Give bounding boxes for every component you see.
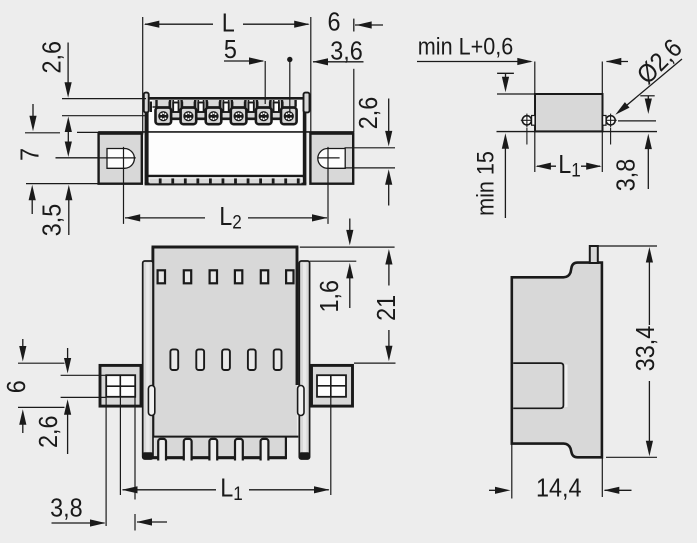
dimension 21 [373, 249, 401, 361]
svg-text:L: L [222, 9, 235, 37]
wire clamp tab 1 [170, 102, 182, 119]
svg-text:2,6: 2,6 [35, 416, 63, 449]
right seam capsule [298, 386, 304, 416]
right end gap [286, 437, 298, 460]
right slot centerline vertical [327, 147, 329, 224]
terminal screw 3 [206, 108, 222, 125]
dimension 33,4 bottom extension [606, 456, 657, 458]
screw boss left [527, 116, 535, 145]
dimension 5 label [224, 36, 237, 64]
small gap dimension [497, 73, 514, 92]
svg-text:min L+0,6: min L+0,6 [418, 32, 513, 59]
left flange slot [107, 149, 134, 169]
housing inner bottom line [148, 176, 303, 179]
dimension 3,6 [313, 37, 364, 65]
wing top extension left [18, 362, 65, 364]
shroud comb band [153, 100, 296, 107]
tooth slot 1 [158, 438, 166, 461]
dimension 2,6 right arrows [385, 99, 392, 206]
wing top arrow left [19, 339, 26, 362]
window right extension down [134, 397, 136, 531]
window bottom extension [61, 396, 107, 398]
body outline (bottom view) [152, 247, 299, 437]
dimension 7 double arrow [65, 117, 72, 158]
dimension 3,5 arrows [29, 185, 73, 235]
shroud inner line [153, 106, 296, 108]
left mounting flange [99, 134, 142, 184]
solder pin side [590, 246, 598, 263]
svg-text:6: 6 [3, 380, 31, 393]
dimension 5 line [224, 57, 265, 104]
left slot centerline horizontal [56, 157, 136, 159]
right slot center extension down [330, 397, 332, 495]
shoulder line across housing [98, 131, 354, 133]
svg-text:14,4: 14,4 [536, 474, 582, 502]
tooth slot 4 [235, 438, 243, 461]
svg-text:2,6: 2,6 [355, 97, 383, 130]
coding slot 1 [170, 349, 178, 370]
wire clamp tab 2 [195, 102, 207, 119]
coding slot 5 [274, 349, 282, 370]
coding slot 2 [196, 349, 204, 370]
coding slot 3 [222, 349, 230, 370]
mounting screw left [521, 114, 533, 127]
svg-text:33,4: 33,4 [632, 326, 660, 372]
dimension L extension lines [143, 17, 311, 135]
right wing window [317, 375, 346, 397]
left side rail [143, 261, 153, 459]
latch hole 1 [158, 270, 165, 283]
window arrows left [64, 348, 71, 454]
left end cap ear [144, 93, 149, 113]
left wing window [106, 375, 135, 397]
left rail bottom cap [143, 452, 153, 459]
dimension diameter 2,6 [615, 34, 688, 115]
latch hole 2 [184, 270, 191, 283]
strip top extension line [62, 98, 146, 100]
dimension 7 label [16, 148, 44, 161]
connector body (bottom view) [154, 247, 297, 437]
dimension 33,4 top extension [598, 245, 657, 247]
screw boss right [603, 116, 611, 145]
wire clamp tab 3 [220, 102, 232, 119]
mounting screw right [605, 114, 617, 127]
svg-text:3,8: 3,8 [50, 495, 83, 523]
terminal screw 5 [256, 108, 272, 125]
dimension 6 label bottom [3, 380, 31, 393]
svg-text:5: 5 [224, 36, 237, 64]
svg-text:3,5: 3,5 [39, 204, 67, 237]
solder pin teeth [153, 437, 299, 458]
dimension 3,8 panel [612, 96, 656, 191]
left slot center extension down [119, 397, 121, 495]
left end step [150, 102, 152, 113]
reference dot [287, 57, 292, 112]
right side extension line [353, 69, 355, 132]
right mounting flange [310, 134, 353, 184]
panel mounting line [497, 131, 658, 133]
svg-text:2,6: 2,6 [38, 41, 66, 74]
dimension 14,4 [489, 474, 632, 502]
left wing flange [100, 365, 141, 406]
right side rail [299, 261, 309, 459]
left slot centerline vertical [123, 147, 125, 224]
latch hole 4 [235, 270, 242, 283]
svg-text:1,6: 1,6 [316, 280, 344, 313]
dimension min L+0,6 [417, 32, 628, 65]
dimension L2 [125, 203, 328, 233]
svg-text:min 15: min 15 [471, 151, 498, 216]
terminal screw 1 [156, 108, 172, 125]
flange top tick [25, 104, 99, 133]
wing cross-section gap [565, 365, 568, 408]
wing cross-section [513, 363, 563, 408]
wing top extension right [354, 362, 396, 364]
terminal screw 2 [181, 108, 197, 125]
dimension 1,6 label [316, 280, 344, 313]
terminal centerline extension [62, 115, 146, 117]
right wing flange [312, 365, 353, 406]
dimension min 15 [471, 133, 509, 218]
dimension 6 top [327, 8, 383, 36]
terminal screw 4 [231, 108, 247, 125]
latch hole 6 [286, 270, 293, 283]
dimension 3,8 bottom [50, 495, 167, 527]
dimension L1 bottom [122, 474, 330, 504]
tooth slot 5 [261, 438, 269, 461]
left seam capsule [148, 386, 154, 416]
dimension 14,4 extensions [512, 444, 603, 499]
dimension 2,6 right label [355, 97, 383, 130]
dimension 2,6 left arrow [65, 43, 72, 98]
dimension 33,4 [632, 247, 660, 456]
rect top extension left [497, 93, 535, 95]
connector front view (panel) [535, 94, 603, 131]
bottom rim tick band [150, 178, 302, 183]
right flange slot [318, 149, 345, 169]
body top extension right [300, 246, 395, 248]
tooth slot 2 [184, 438, 192, 461]
right rail bottom cap [299, 452, 309, 459]
housing walls (top view) [145, 99, 307, 184]
dimension L1 panel [535, 132, 603, 181]
min L extension lines [535, 62, 603, 95]
wing bottom arrow left [19, 409, 26, 433]
tooth slot 3 [209, 438, 217, 461]
latch hole 5 [261, 270, 268, 283]
rail top extension right [310, 260, 357, 262]
wire clamp tab 4 [245, 102, 257, 119]
dimension 1,6 arrows [346, 219, 353, 309]
right end cap ear [304, 93, 310, 113]
dimension 2,6 bottom label [35, 416, 63, 449]
flange slot center extension [56, 157, 99, 159]
svg-text:6: 6 [327, 8, 340, 36]
right slot bottom extension line [345, 167, 396, 169]
wing bottom extension left [18, 406, 65, 408]
window top extension [61, 374, 107, 376]
svg-text:7: 7 [16, 148, 44, 161]
dimension 2,6 left label [38, 41, 66, 74]
window left extension down [105, 397, 107, 526]
terminal screw 6 [281, 108, 297, 125]
right slot top extension line [345, 147, 396, 149]
dimension 3,5 label [39, 204, 67, 237]
header shroud top edge [146, 97, 305, 100]
coding slot 4 [248, 349, 256, 370]
latch hole 3 [210, 270, 217, 283]
housing body outline (top view) [145, 99, 307, 185]
svg-text:3,8: 3,8 [612, 159, 640, 192]
dimension L [144, 9, 310, 37]
body bottom extension line [26, 183, 98, 185]
side profile body [512, 263, 602, 458]
right slot centerline horizontal [318, 157, 340, 159]
wire clamp tab 5 [270, 102, 282, 119]
svg-text:21: 21 [373, 295, 401, 321]
